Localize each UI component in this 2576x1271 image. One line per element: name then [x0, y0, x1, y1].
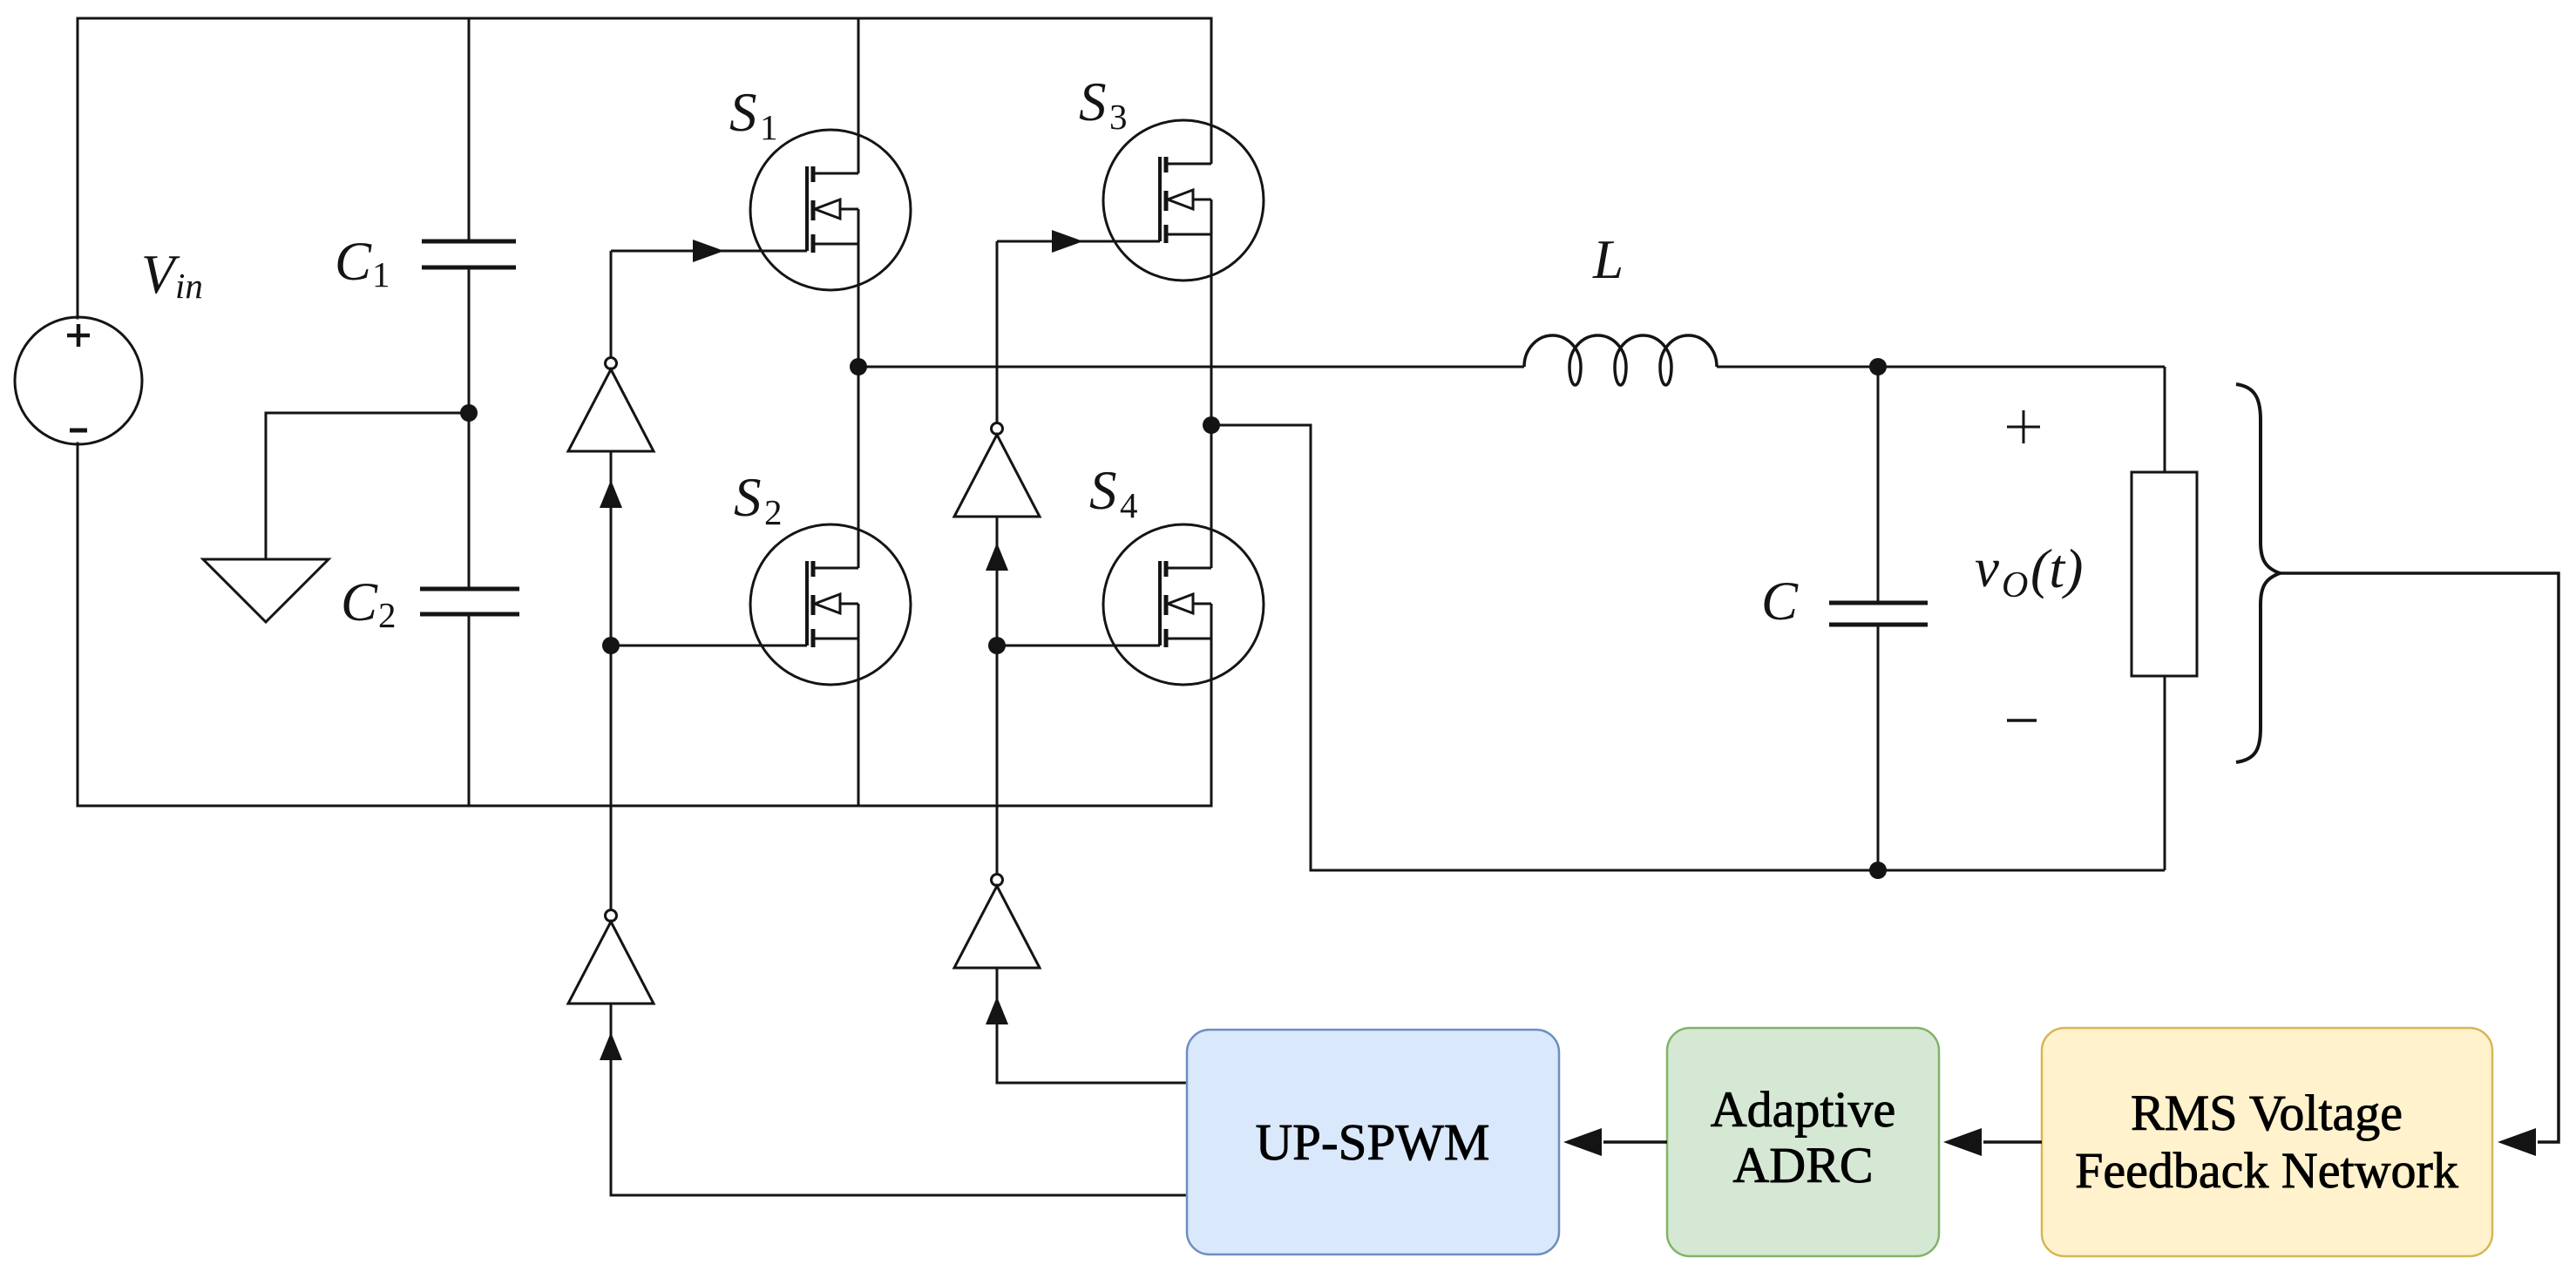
node S4 gate: [988, 637, 1006, 654]
wire U2 input: [611, 1004, 1187, 1195]
arrow up into U4: [986, 997, 1008, 1024]
capacitor C1: [422, 18, 516, 589]
wire left rail upper: [77, 18, 79, 318]
svg-text:S: S: [734, 467, 762, 528]
inverter U3 (S3 driver): [954, 423, 1040, 517]
svg-text:L: L: [1592, 229, 1624, 290]
arrow up into U3: [986, 543, 1008, 571]
transistor S4: [1103, 524, 1264, 685]
svg-text:S: S: [1089, 460, 1117, 521]
svg-text:S: S: [729, 82, 757, 143]
wire ground branch: [266, 413, 469, 558]
label vO(t): [1975, 537, 2083, 605]
node A (bridge left midpoint): [850, 358, 867, 375]
capacitor C (output filter): [1829, 367, 1928, 870]
node S2 gate: [602, 637, 620, 654]
inductor L: [1524, 335, 1717, 385]
label S2: [734, 467, 783, 532]
wire RMS to ADRC: [1983, 1140, 2042, 1144]
transistor S3: [1103, 120, 1264, 281]
svg-text:v: v: [1975, 537, 1999, 598]
label Vin: [141, 244, 203, 306]
arrow into ADRC: [1943, 1128, 1982, 1156]
wire node A to inductor: [858, 366, 1524, 368]
svg-text:ADRC: ADRC: [1732, 1137, 1873, 1193]
wire left rail lower: [77, 443, 79, 806]
block Adaptive ADRC: [1667, 1028, 1939, 1256]
svg-text:C: C: [341, 571, 378, 632]
arrow up into U1: [600, 480, 622, 508]
svg-text:O: O: [2002, 565, 2028, 605]
label S3: [1079, 71, 1128, 137]
wire S1 drain leg: [858, 18, 860, 173]
wire bottom rail: [78, 805, 1211, 808]
wire S2 source leg: [858, 604, 860, 806]
wire feedback from brace: [2280, 573, 2559, 1142]
svg-text:(t): (t): [2030, 537, 2083, 599]
transistor S2: [750, 524, 911, 685]
arrow into UP-SPWM: [1563, 1128, 1602, 1156]
svg-text:1: 1: [372, 254, 390, 294]
inverter U1 (S1 driver): [568, 358, 654, 452]
wire down to inverter U2: [610, 646, 613, 910]
wire top rail: [78, 17, 1211, 20]
arrow up into U2: [600, 1032, 622, 1060]
wire into inverter U3: [996, 241, 999, 423]
svg-text:3: 3: [1109, 97, 1128, 137]
label + output: [2007, 410, 2040, 443]
arrow on S1 gate wire: [693, 240, 724, 262]
arrow feedback into RMS box: [2498, 1128, 2536, 1156]
node midpoint of C1/C2: [460, 404, 478, 422]
wire node B to return: [1211, 425, 1878, 870]
wire bottom output: [1878, 869, 2165, 872]
svg-text:4: 4: [1120, 485, 1138, 525]
driver chain left: wire gate S1: [611, 250, 807, 253]
svg-text:in: in: [175, 266, 203, 306]
wire S1 source to node A: [858, 209, 860, 568]
inverter U4 (S4 driver): [954, 875, 1040, 969]
wire inductor to node C: [1717, 366, 2165, 368]
svg-text:2: 2: [764, 492, 783, 532]
wire into inverter U1: [610, 251, 613, 358]
label C2: [341, 571, 397, 635]
svg-text:S: S: [1079, 71, 1107, 132]
label S1: [729, 82, 778, 147]
wire U1 input: [610, 451, 613, 646]
label S4: [1089, 460, 1138, 525]
block UP-SPWM: [1187, 1030, 1559, 1254]
arrow on S3 gate wire: [1052, 230, 1083, 253]
wire S3 source to node B: [1210, 199, 1213, 568]
wire gate S4: [997, 645, 1160, 647]
svg-text:RMS Voltage: RMS Voltage: [2131, 1085, 2403, 1141]
node C (output top): [1869, 358, 1887, 375]
svg-text:Feedback Network: Feedback Network: [2075, 1142, 2458, 1199]
wire U3 input: [996, 517, 999, 646]
ground: [203, 559, 329, 622]
inverter U2 (S2 driver): [568, 910, 654, 1004]
node B (bridge right midpoint): [1203, 416, 1220, 434]
svg-text:C: C: [1761, 571, 1799, 632]
wire down to inverter U4: [996, 646, 999, 875]
svg-text:Adaptive: Adaptive: [1711, 1081, 1896, 1138]
block RMS Voltage Feedback Network: [2042, 1028, 2492, 1256]
wire gate S2: [611, 645, 807, 647]
transistor S1: [750, 130, 911, 290]
brace output: [2236, 384, 2280, 762]
label C1: [335, 231, 390, 294]
label - output: [2007, 719, 2037, 722]
wire S3 drain leg: [1210, 18, 1213, 164]
node D (output bottom): [1869, 862, 1887, 879]
voltage source Vin: [15, 317, 142, 444]
load resistor: [2132, 367, 2197, 870]
driver chain right: wire gate S3: [997, 240, 1160, 243]
capacitor C2: [420, 589, 519, 806]
wire S4 source leg: [1210, 604, 1213, 806]
svg-text:C: C: [335, 231, 372, 292]
wire U4 input: [997, 968, 1187, 1083]
svg-text:1: 1: [760, 107, 778, 147]
wire ADRC to UP-SPWM: [1603, 1140, 1667, 1144]
svg-text:UP-SPWM: UP-SPWM: [1256, 1113, 1490, 1171]
svg-text:2: 2: [378, 595, 397, 635]
